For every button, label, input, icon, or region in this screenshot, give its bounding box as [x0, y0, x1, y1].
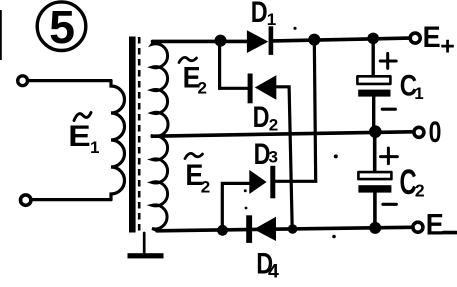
svg-text:E: E — [423, 21, 441, 55]
diode D3 — [270, 166, 275, 199]
node winding bottom / D3 branch — [217, 225, 228, 236]
svg-text:2: 2 — [198, 79, 207, 98]
wire top rail right — [273, 38, 409, 41]
wire D2 anode to E- riser — [276, 87, 292, 229]
wire D2 cathode branch — [220, 41, 248, 89]
terminal input bottom-left — [21, 195, 31, 205]
node C1/C2 midpoint — [369, 125, 382, 138]
scan edge artifact — [0, 10, 2, 60]
terminal 0 — [414, 127, 424, 137]
terminal E+ — [410, 33, 420, 43]
svg-text:+: + — [440, 32, 455, 60]
transformer core dashed line — [138, 37, 141, 232]
scan speck — [334, 154, 338, 158]
label E2 bottom tilde — [185, 153, 203, 158]
svg-text:E: E — [426, 208, 444, 242]
wire D3 anode branch — [222, 183, 249, 230]
node top winding / D2 branch — [215, 35, 227, 47]
svg-text:3: 3 — [269, 147, 278, 166]
wire E- rail — [157, 227, 411, 231]
wire primary top lead — [29, 79, 111, 82]
wire primary bottom lead — [33, 198, 111, 201]
svg-text:1: 1 — [267, 10, 276, 29]
svg-text:1: 1 — [90, 138, 99, 157]
svg-text:2: 2 — [415, 181, 425, 201]
diode D1 — [247, 30, 268, 53]
node C1 junction — [367, 33, 379, 45]
diode D4 — [246, 215, 252, 243]
capacitor C2 minus — [383, 203, 396, 206]
svg-text:E: E — [68, 119, 90, 153]
scan speck — [293, 27, 296, 30]
capacitor C1 minus — [382, 108, 395, 111]
figure number circle 5 — [37, 2, 86, 51]
ground — [128, 253, 164, 258]
svg-text:5: 5 — [49, 1, 75, 53]
label E2 top tilde — [179, 57, 197, 62]
node D3 riser junction — [308, 34, 320, 46]
label E1 tilde — [74, 113, 91, 121]
scan speck — [244, 189, 247, 192]
svg-text:1: 1 — [414, 84, 423, 103]
primary winding L1 — [111, 81, 125, 200]
wire C1 top lead — [372, 38, 375, 76]
terminal input top-left — [18, 76, 28, 86]
wire C1 bottom lead — [372, 97, 375, 132]
wire 0 rail (center tap) — [154, 132, 412, 136]
diode D2 — [248, 74, 253, 104]
scan speck — [332, 235, 336, 239]
svg-text:4: 4 — [268, 261, 279, 283]
svg-text:D: D — [253, 100, 270, 133]
capacitor C1 plus — [380, 53, 396, 68]
node C2 bottom junction — [369, 222, 381, 234]
node D2 riser junction — [288, 224, 298, 234]
svg-text:0: 0 — [429, 115, 442, 148]
wire top rail left — [153, 40, 248, 44]
capacitor C1 bottom plate — [358, 90, 390, 97]
svg-text:2: 2 — [269, 115, 278, 134]
scan speck — [245, 207, 248, 210]
capacitor C2 top plate — [358, 172, 391, 179]
svg-text:2: 2 — [201, 177, 210, 196]
capacitor C1 top plate — [357, 76, 390, 84]
terminal E- — [413, 222, 423, 232]
wire C2 top lead — [373, 132, 377, 173]
capacitor C2 plus — [381, 148, 398, 164]
ground stem — [143, 233, 146, 254]
transformer core bar — [129, 37, 136, 233]
wire C2 bottom lead — [373, 193, 377, 228]
secondary winding lower half — [152, 136, 168, 231]
wire D3 riser — [275, 40, 315, 182]
capacitor C2 bottom plate — [358, 185, 391, 192]
secondary winding upper half — [152, 42, 168, 137]
svg-text:D: D — [251, 0, 268, 28]
